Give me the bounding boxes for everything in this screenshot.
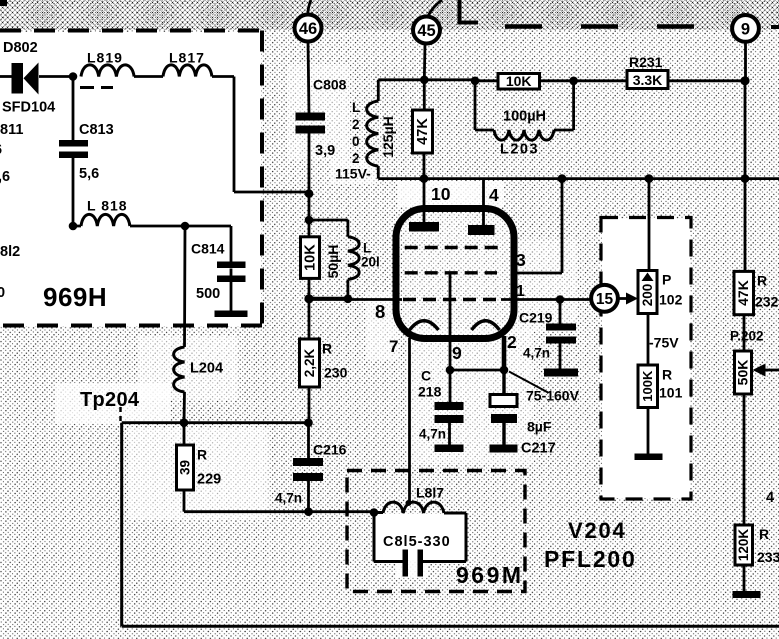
svg-text:4,7n: 4,7n — [523, 346, 550, 361]
label SFD104 — [2, 100, 55, 116]
label L204 — [190, 361, 223, 377]
svg-text:100µH: 100µH — [503, 109, 546, 125]
label 969H — [43, 282, 107, 312]
wire trap loop C815 — [374, 513, 466, 562]
pin label 7 — [389, 337, 398, 356]
capacitor C815 plates — [403, 550, 424, 577]
wire 115V rail — [424, 177, 779, 180]
wire Tp204 down and bottom rail — [122, 423, 779, 627]
svg-text:2: 2 — [352, 117, 360, 132]
wire L201 parallel branch — [309, 220, 348, 298]
tube grid row C — [403, 298, 502, 301]
inductor L817 trap coil — [383, 502, 444, 513]
wire diagonal callout 75-160V — [509, 372, 548, 393]
label 125uH — [380, 116, 396, 158]
terminal 15 — [591, 285, 618, 312]
resistor R101 100K — [638, 365, 658, 408]
inductor L201 — [348, 237, 359, 280]
resistor 120K — [735, 525, 753, 565]
wire tube pin 1 — [501, 298, 591, 301]
svg-text:39: 39 — [178, 460, 193, 475]
pin label 3 — [516, 250, 526, 270]
label P.202 — [730, 329, 764, 344]
svg-text:46: 46 — [299, 20, 317, 38]
label 4,7n of C218 — [419, 427, 446, 442]
label R231 — [629, 54, 663, 70]
wire 50K wiper lead — [764, 369, 779, 372]
capacitor C219 — [546, 324, 576, 344]
tube grid row A — [405, 246, 501, 249]
label 8uF — [527, 419, 552, 435]
wire tube pin 4 — [482, 179, 485, 225]
svg-text:47K: 47K — [735, 280, 751, 306]
terminal 45 — [413, 17, 440, 44]
pin label 10 — [431, 184, 451, 204]
svg-text:15: 15 — [596, 291, 614, 308]
ground of 120K — [733, 591, 761, 598]
svg-text:233: 233 — [757, 549, 779, 565]
svg-text:R: R — [759, 526, 769, 542]
label PFL200 — [544, 546, 637, 572]
svg-text:500: 500 — [196, 286, 220, 302]
label C217 — [521, 441, 556, 457]
label fragment 4 — [766, 490, 774, 506]
inductor L204 — [174, 347, 185, 392]
label Tp204 — [80, 389, 140, 411]
label 4,7n of C219 — [523, 346, 550, 361]
svg-text:L: L — [352, 100, 360, 115]
svg-text:125µH: 125µH — [380, 116, 396, 158]
wire main column to R230 — [308, 300, 311, 340]
resistor R232 47K — [734, 271, 754, 314]
dashed box P102 — [601, 218, 691, 500]
svg-text:1: 1 — [516, 283, 525, 300]
svg-text:8µF: 8µF — [527, 419, 552, 435]
svg-text:L: L — [363, 241, 371, 256]
dashed box 969H — [0, 31, 262, 326]
label fragment 0 — [0, 285, 5, 301]
svg-text:C813: C813 — [79, 122, 114, 138]
svg-text:C814: C814 — [191, 241, 225, 257]
svg-text:10K: 10K — [506, 73, 532, 89]
svg-text:229: 229 — [197, 472, 221, 488]
potentiometer 50K P202 — [735, 351, 752, 394]
wire L819-L817 link — [134, 75, 163, 78]
label 812 — [0, 244, 20, 260]
bar of C219 — [544, 369, 578, 377]
wire L202 top link — [378, 78, 424, 81]
svg-text:120K: 120K — [736, 529, 751, 562]
tube anode plate right — [468, 225, 495, 235]
capacitor C808 — [296, 113, 326, 134]
label C808 — [313, 77, 347, 93]
svg-text:5,6: 5,6 — [79, 166, 99, 182]
potentiometer P102 — [638, 271, 657, 314]
label R 232 — [755, 273, 779, 310]
pin label 9 — [452, 343, 462, 363]
svg-text:V204: V204 — [568, 518, 627, 543]
wire terminal 46 to C808 — [308, 42, 309, 114]
resistor R230 2,2K — [300, 339, 320, 387]
svg-text:R231: R231 — [629, 54, 663, 70]
wire terminal 45 top lead — [428, 0, 443, 17]
label 5,6 — [79, 166, 99, 182]
arrow into 50K — [753, 364, 766, 377]
wire stubs of L818 — [73, 225, 185, 228]
wire arrow 15 to P102 — [619, 297, 628, 300]
label fragment ,6 — [0, 169, 10, 185]
svg-text:2: 2 — [352, 151, 360, 166]
label C219 — [519, 310, 553, 326]
svg-text:-75V: -75V — [649, 335, 679, 351]
wire L204 leads — [184, 226, 185, 423]
resistor 10K (top row) — [498, 73, 540, 89]
label L817 — [169, 50, 205, 66]
svg-text:3: 3 — [516, 250, 526, 270]
svg-text:10K: 10K — [302, 244, 318, 271]
svg-text:3.3K: 3.3K — [633, 72, 663, 88]
wire terminal 46 top lead — [308, 0, 311, 15]
svg-text:L819: L819 — [87, 50, 123, 66]
label R 233 — [757, 526, 779, 565]
wire R229 top lead — [183, 423, 186, 445]
diode D802 — [12, 63, 39, 95]
inductor L818 — [81, 214, 130, 226]
svg-text:Tp204: Tp204 — [80, 389, 140, 411]
svg-text:3,9: 3,9 — [315, 143, 335, 159]
svg-text:P.202: P.202 — [730, 329, 764, 344]
svg-text:10: 10 — [431, 184, 451, 204]
ground of C217 — [490, 445, 518, 453]
wire C219 leads — [559, 300, 562, 369]
label 50uH — [325, 245, 341, 279]
svg-text:200: 200 — [640, 284, 655, 307]
svg-text:L203: L203 — [500, 142, 539, 158]
resistor R231 3.3K — [627, 71, 668, 89]
label L819 — [87, 50, 123, 66]
label 115V- — [335, 166, 371, 182]
svg-text:4,7n: 4,7n — [275, 491, 302, 506]
svg-text:R: R — [197, 447, 207, 463]
dashed tick Tp204 — [119, 407, 122, 421]
label 500 — [196, 286, 220, 302]
svg-text:C216: C216 — [313, 442, 347, 458]
label R 229 — [197, 447, 221, 488]
svg-text:C: C — [421, 368, 431, 384]
capacitor C814 — [217, 262, 246, 283]
inductor L203 — [494, 130, 554, 140]
capacitor C218 — [435, 402, 464, 423]
label V204 — [568, 518, 627, 543]
wire L817 to C808 node — [212, 77, 309, 193]
dashed border top right — [460, 0, 779, 27]
label 4,7n of C216 — [275, 491, 302, 506]
pin label 8 — [375, 301, 385, 322]
svg-text:20l: 20l — [361, 255, 380, 270]
resistor R229 39 — [177, 445, 194, 490]
wire L202 body leads — [378, 80, 424, 179]
label L817 trap — [416, 485, 444, 501]
wire node to C216 — [307, 423, 310, 512]
svg-text:R: R — [757, 273, 767, 289]
svg-text:811: 811 — [0, 122, 23, 138]
pin label 1 — [516, 283, 525, 300]
label L201 — [361, 241, 380, 270]
label C815-330 — [383, 534, 451, 550]
svg-text:8: 8 — [375, 301, 385, 322]
svg-text:969M: 969M — [456, 562, 524, 588]
capacitor C813 — [59, 140, 88, 158]
capacitor C216 — [293, 458, 323, 481]
wire 47K leads — [423, 80, 426, 179]
wire right column R232 50K 120K — [744, 179, 745, 591]
svg-text:9: 9 — [452, 343, 462, 363]
label C813 — [79, 122, 114, 138]
resistor 47K (top) — [413, 110, 433, 153]
label R 230 — [322, 341, 348, 381]
svg-text:7: 7 — [389, 337, 398, 356]
svg-text:50µH: 50µH — [325, 245, 341, 279]
resistor 10K (vertical) — [301, 237, 320, 279]
wire C217 leads — [502, 370, 505, 445]
capacitor C217 electrolytic — [490, 395, 517, 424]
wire pin9 pin2 link — [450, 369, 504, 372]
ground of R101 — [635, 454, 663, 461]
label -75V — [649, 335, 679, 351]
terminal 9 — [732, 15, 759, 42]
wire tube pin 3 — [511, 179, 562, 273]
wire L203 parallel loop — [475, 81, 574, 130]
vacuum tube V204 outline — [396, 209, 514, 339]
label 100uH — [503, 109, 546, 125]
white interior of P102 dashed box — [602, 219, 690, 498]
svg-text:4: 4 — [489, 185, 499, 205]
svg-text:C217: C217 — [521, 441, 556, 457]
svg-text:SFD104: SFD104 — [2, 100, 55, 116]
wire node A down to C813 — [72, 77, 75, 141]
pin label 4 — [489, 185, 499, 205]
svg-text:45: 45 — [417, 22, 435, 40]
wire left edge into D802 — [0, 75, 12, 78]
tube cathode arc right — [472, 321, 500, 330]
svg-text:0: 0 — [352, 134, 360, 149]
wire R229 bottom lead — [183, 490, 186, 512]
ground of C814 — [215, 311, 248, 318]
wire terminal 45 down — [423, 44, 427, 80]
wire C813 to L818 node — [72, 158, 75, 226]
dashed box 969M — [347, 471, 525, 592]
svg-text:C219: C219 — [519, 310, 553, 326]
svg-text:2: 2 — [507, 332, 517, 352]
label fragment 6 — [0, 142, 2, 158]
label C 218 — [418, 368, 442, 400]
wire terminal 9 down — [744, 42, 747, 179]
svg-text:L204: L204 — [190, 361, 223, 377]
wire Tp204 node row — [122, 421, 309, 424]
label C216 — [313, 442, 347, 458]
svg-text:218: 218 — [418, 384, 442, 400]
svg-text:6: 6 — [0, 142, 2, 158]
svg-text:P: P — [662, 272, 671, 288]
label 75-160V — [526, 388, 580, 404]
wire 10K R column — [308, 220, 311, 300]
svg-text:D802: D802 — [3, 40, 38, 56]
white interior of 969H dashed box — [0, 32, 261, 326]
label 969M — [456, 562, 524, 588]
svg-text:969H: 969H — [43, 282, 107, 312]
svg-text:L8l7: L8l7 — [416, 485, 444, 501]
label C814 — [191, 241, 225, 257]
svg-text:50K: 50K — [735, 360, 751, 386]
terminal 46 — [295, 15, 322, 42]
svg-text:4,7n: 4,7n — [419, 427, 446, 442]
label L203 — [500, 142, 539, 158]
wire grid pin 8 line — [309, 298, 402, 301]
tube cathode arc left — [410, 321, 439, 330]
svg-text:0: 0 — [0, 285, 5, 301]
svg-text:232: 232 — [755, 294, 779, 310]
wire P102 R101 chain — [648, 179, 649, 454]
label L202 stacked — [352, 100, 360, 166]
svg-text:115V-: 115V- — [335, 166, 371, 182]
svg-text:100K: 100K — [640, 370, 655, 402]
svg-text:9: 9 — [741, 21, 750, 39]
svg-text:2,2K: 2,2K — [302, 348, 317, 377]
ground of C218 — [435, 445, 464, 453]
tube anode plate left — [409, 222, 439, 232]
label P 102 — [659, 272, 683, 308]
wire R230 to node — [308, 387, 311, 423]
label D802 — [3, 40, 38, 56]
svg-text:L 818: L 818 — [87, 198, 128, 214]
svg-text:C808: C808 — [313, 77, 347, 93]
svg-text:,6: ,6 — [0, 169, 10, 185]
label 3,9 — [315, 143, 335, 159]
label 811 — [0, 122, 23, 138]
inductor L202 — [367, 101, 379, 166]
inductor L817 — [163, 65, 212, 77]
inductor L819 — [81, 65, 134, 77]
wire tube pin 2 — [502, 336, 507, 370]
wire D802 to node A — [39, 75, 73, 78]
svg-text:8l2: 8l2 — [0, 244, 20, 260]
wire tube pin 9 cathode — [448, 273, 451, 445]
svg-text:47K: 47K — [415, 118, 431, 145]
svg-text:PFL200: PFL200 — [544, 546, 637, 572]
svg-text:75-160V: 75-160V — [526, 388, 580, 404]
svg-text:C8l5-330: C8l5-330 — [383, 534, 451, 550]
svg-text:R: R — [662, 367, 672, 383]
wire tube pin 10 — [423, 179, 426, 222]
wire C814 branch — [185, 226, 231, 311]
svg-text:4: 4 — [766, 490, 774, 506]
wire C216 bottom to trap node — [184, 510, 374, 513]
wire supply row y81 — [424, 80, 745, 81]
pin label 2 — [507, 332, 517, 352]
svg-text:102: 102 — [659, 292, 683, 308]
tube grid row B — [405, 271, 497, 274]
svg-text:230: 230 — [324, 365, 348, 381]
light patches in scan — [288, 64, 350, 160]
svg-text:R: R — [322, 341, 332, 357]
corner mark top left — [0, 0, 7, 6]
dashed stub under D802 node — [80, 86, 113, 89]
white interior of C815 trap box — [375, 514, 465, 560]
svg-text:L817: L817 — [169, 50, 205, 66]
svg-text:101: 101 — [659, 385, 683, 401]
wire C808 down main column — [308, 133, 311, 220]
label R 101 — [659, 367, 683, 401]
arrow into P102 — [626, 293, 638, 305]
wire tube pin 7 to trap — [408, 338, 411, 503]
label L818 — [87, 198, 128, 214]
